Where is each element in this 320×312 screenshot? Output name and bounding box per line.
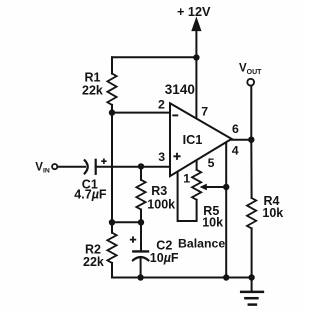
wire pin 2 input xyxy=(112,112,170,114)
node junction divider/R2 top xyxy=(109,219,115,225)
capacitor C2 plus sign xyxy=(130,236,136,242)
svg-text:C2: C2 xyxy=(156,238,172,252)
svg-text:3: 3 xyxy=(158,150,165,164)
node junction output xyxy=(248,137,254,143)
svg-text:1: 1 xyxy=(183,172,190,186)
node junction R1 bottom xyxy=(109,109,115,115)
capacitor C1 xyxy=(85,160,88,173)
svg-text:Balance: Balance xyxy=(178,236,225,250)
wire bias divider vertical xyxy=(111,113,113,223)
svg-text:IC1: IC1 xyxy=(183,133,203,147)
wire +12V vertical / pin 7 feed xyxy=(195,26,197,120)
svg-text:+ 12V: + 12V xyxy=(177,5,211,19)
op-amp minus sign xyxy=(172,114,178,116)
wire VIN to C1 xyxy=(58,166,85,168)
capacitor C1 plus sign xyxy=(101,159,106,164)
potentiometer R5 body xyxy=(192,170,201,200)
wire R5 bottom to pin 1 loop xyxy=(178,169,197,221)
svg-text:10k: 10k xyxy=(262,206,283,220)
op-amp plus sign xyxy=(173,153,180,160)
resistor R4 xyxy=(250,140,252,198)
potentiometer R5 pin5 lead xyxy=(196,158,198,170)
svg-text:4.7µF: 4.7µF xyxy=(74,188,107,202)
resistor R3 xyxy=(140,166,142,179)
node junction input/R3 xyxy=(138,163,144,169)
wire VOUT down to output node xyxy=(250,86,252,140)
node junction +12V rail xyxy=(193,54,199,60)
wire C1 to pin 3 xyxy=(96,166,170,168)
svg-text:R1: R1 xyxy=(85,70,101,84)
capacitor C2 xyxy=(140,222,142,250)
svg-text:R3: R3 xyxy=(151,184,167,198)
node junction rail/ground xyxy=(248,274,254,280)
wire R2 node to C2 node xyxy=(112,221,141,223)
svg-text:10k: 10k xyxy=(202,216,223,230)
svg-text:2: 2 xyxy=(158,98,165,112)
node junction pin4/rail xyxy=(223,274,229,280)
potentiometer R5 wiper arrow xyxy=(205,186,226,188)
resistor R2 xyxy=(111,222,113,232)
node junction R3 bottom / C2 top xyxy=(138,219,144,225)
svg-text:22k: 22k xyxy=(82,84,103,98)
terminal VOUT xyxy=(247,79,254,86)
svg-text:5: 5 xyxy=(208,156,215,170)
svg-text:6: 6 xyxy=(232,122,239,136)
wire op-amp pin 4 down xyxy=(225,141,227,278)
terminal VIN xyxy=(52,164,57,169)
wire output pin 6 xyxy=(232,139,252,141)
svg-text:7: 7 xyxy=(201,105,208,119)
power +12V arrow xyxy=(192,18,201,31)
node junction pin4/wiper xyxy=(223,184,229,190)
resistor R1 xyxy=(111,57,113,73)
svg-text:3140: 3140 xyxy=(165,82,195,97)
svg-text:10µF: 10µF xyxy=(150,251,179,265)
wire bottom ground rail xyxy=(112,277,252,279)
wire top supply rail xyxy=(112,56,196,58)
svg-text:4: 4 xyxy=(232,143,239,157)
ground symbol xyxy=(251,278,253,291)
svg-text:22k: 22k xyxy=(83,255,104,269)
svg-text:100k: 100k xyxy=(147,198,175,212)
node junction C2 bottom xyxy=(137,274,143,280)
op-amp IC1 triangle xyxy=(170,103,232,176)
